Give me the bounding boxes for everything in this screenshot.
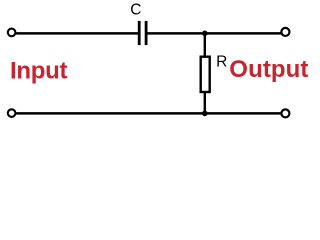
wire: top junction down to resistor R top xyxy=(204,33,206,57)
wire: bottom net, input terminal to output terminal xyxy=(12,112,286,115)
wire: top net, capacitor C right plate to output terminal xyxy=(146,32,286,35)
input terminal bottom (open circle) xyxy=(8,109,16,117)
svg-text:Input: Input xyxy=(10,58,67,85)
svg-text:R: R xyxy=(216,54,227,71)
svg-text:C: C xyxy=(130,1,141,18)
input terminal top (open circle) xyxy=(8,29,16,37)
resistor R (box symbol) xyxy=(201,57,210,92)
wire: resistor R bottom down to bottom net junction xyxy=(204,92,206,113)
node: bottom junction of R with bottom net xyxy=(202,111,208,117)
node: top junction of R with top net xyxy=(202,31,208,37)
output terminal bottom (open circle) xyxy=(281,109,289,117)
capacitor C xyxy=(139,21,146,45)
svg-text:Output: Output xyxy=(229,56,308,83)
wire: top net, input terminal to capacitor C left plate xyxy=(12,32,139,35)
output terminal top (open circle) xyxy=(281,28,289,36)
